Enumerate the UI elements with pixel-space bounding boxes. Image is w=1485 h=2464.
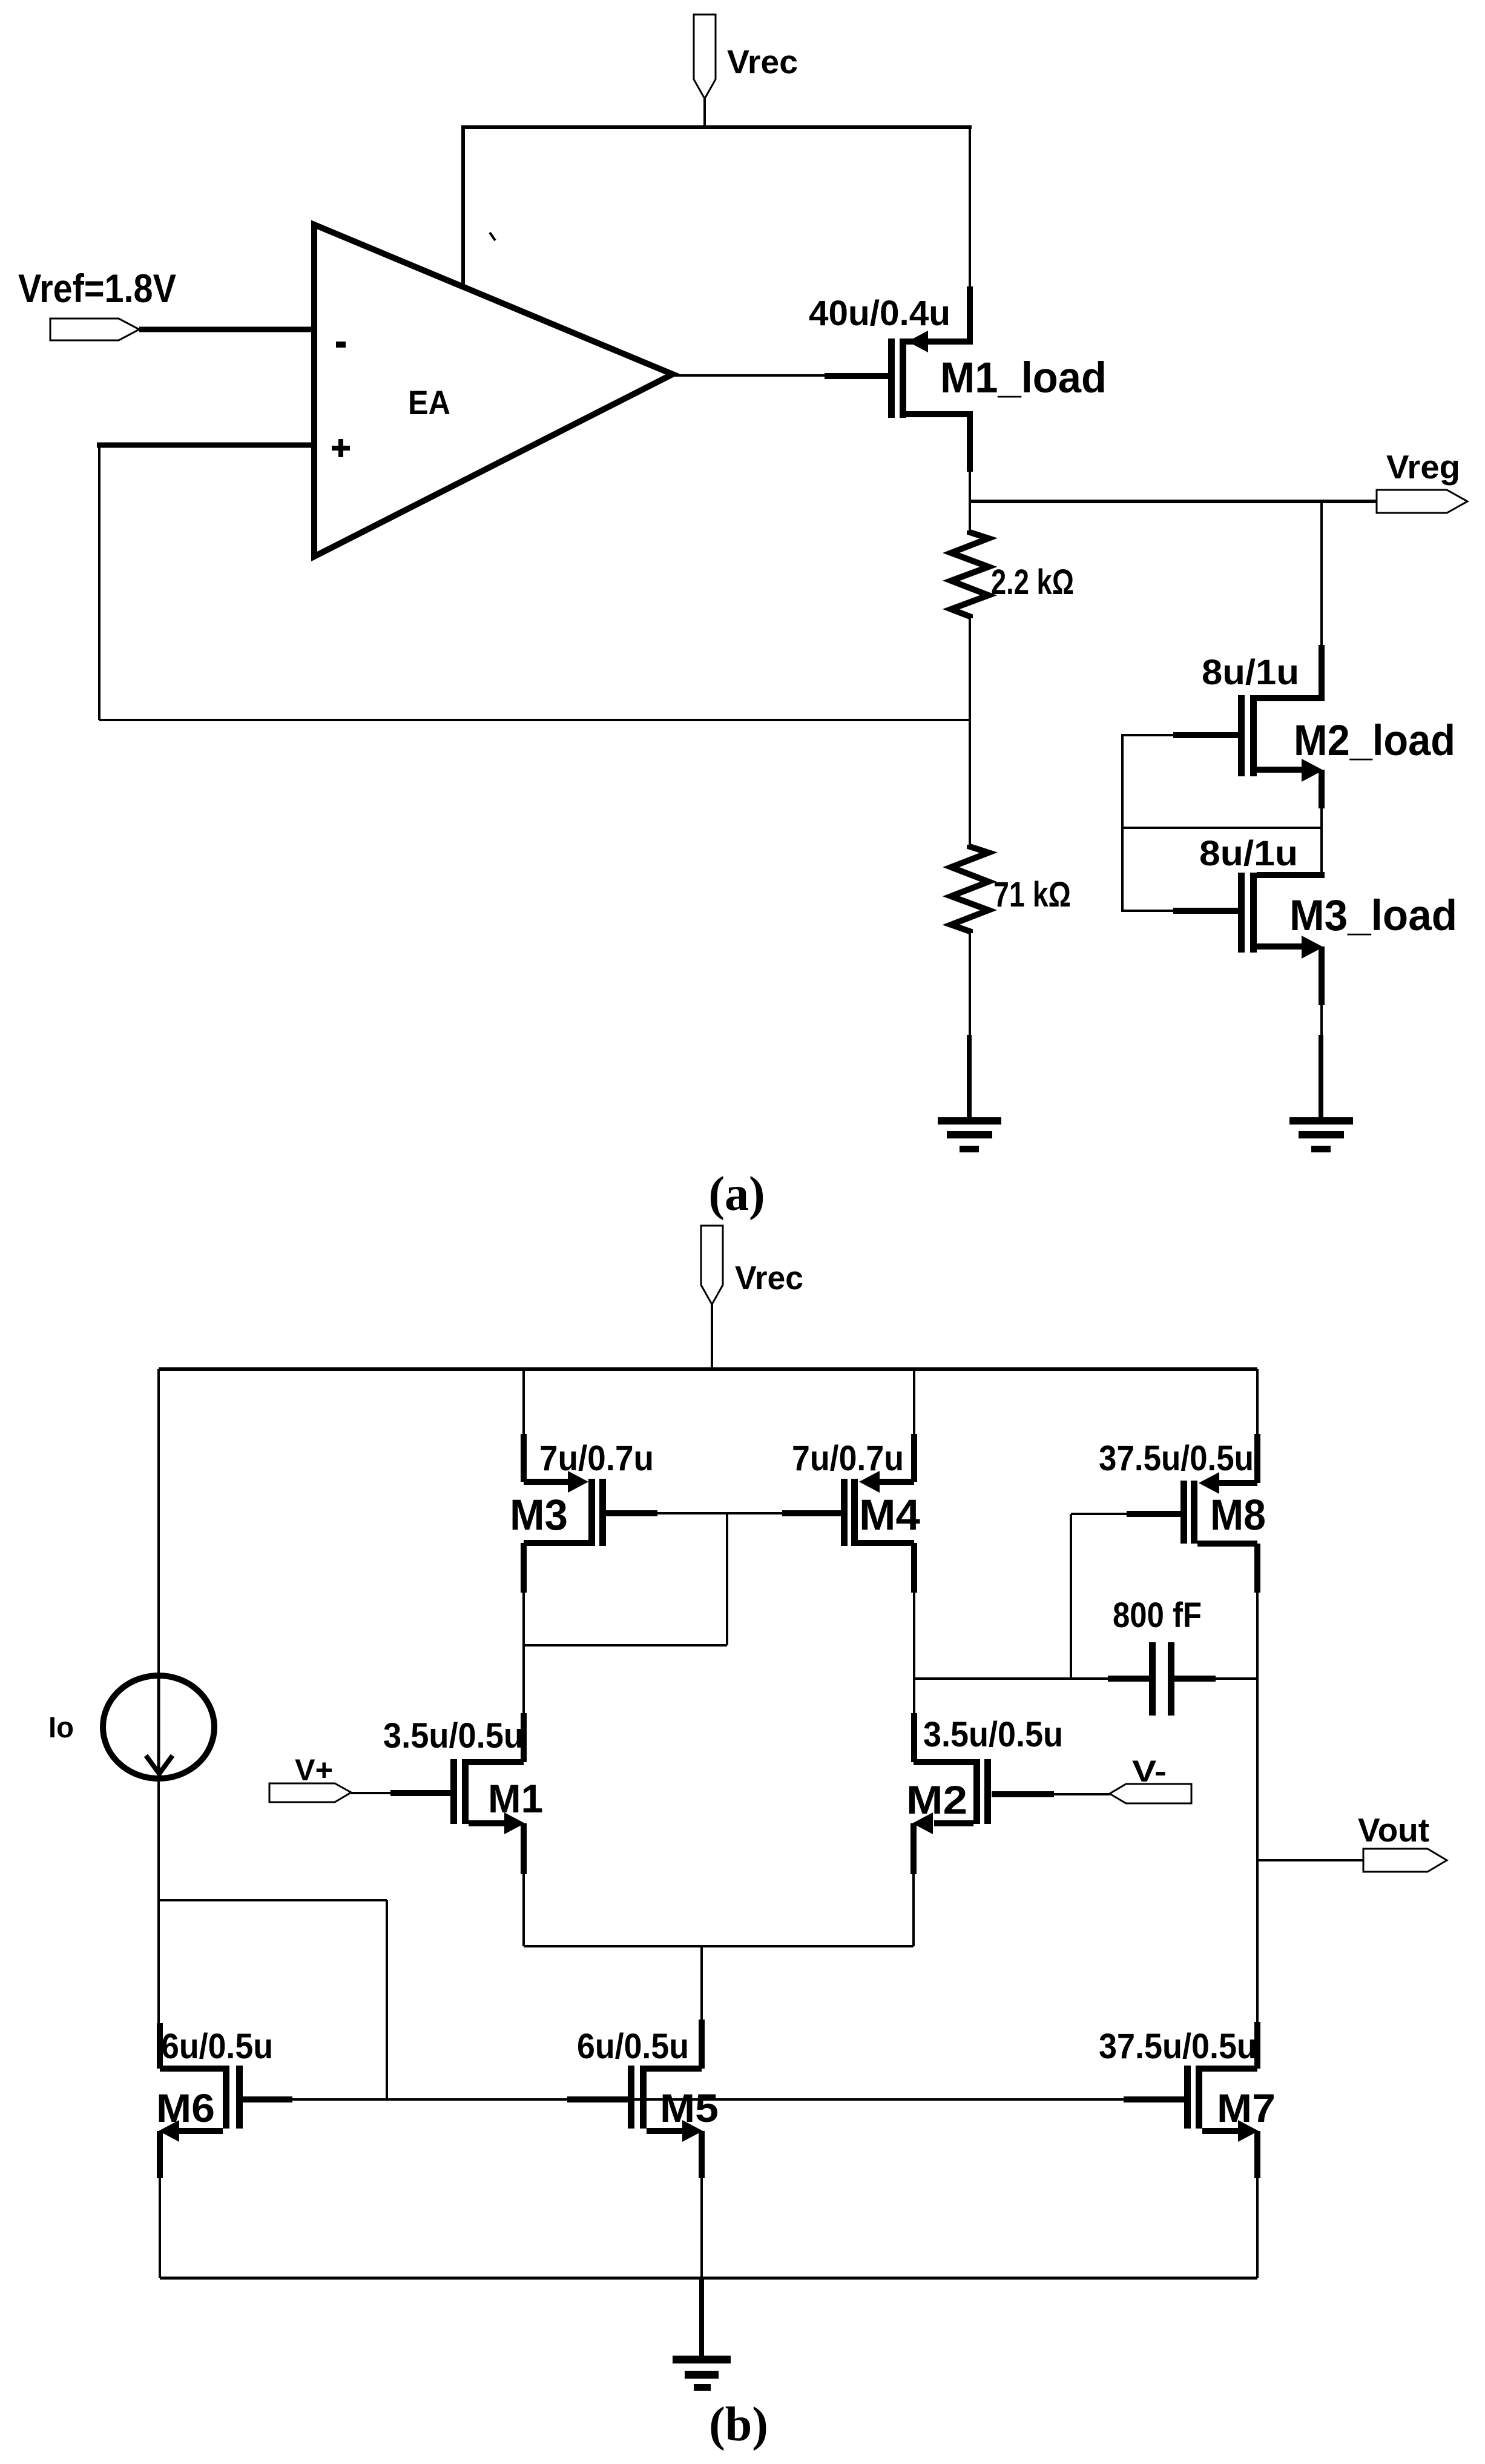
svg-text:3.5u/0.5u: 3.5u/0.5u [383,1716,524,1756]
wire M8 drain down to M7 (Vout rail) [1256,1593,1259,2069]
svg-text:M1_load: M1_load [940,354,1107,402]
wire divider middle (junction with feedback) [969,618,971,847]
wire EA output to M1_load gate [673,375,888,376]
svg-text:7u/0.7u: 7u/0.7u [792,1439,904,1478]
transistor M4 (PMOS 7u/0.7u) [841,1369,914,1593]
terminal Vrec (fig a) [694,15,716,127]
transistor M5 (NMOS 6u/0.5u) [628,2066,703,2178]
transistor M8 (PMOS 37.5u/0.5u) [1180,1369,1257,1593]
wire M3_load drain to ground [1321,946,1322,1119]
svg-text:Vref=1.8V: Vref=1.8V [18,266,176,311]
wire Io node to M5/M6 gate bus [159,1900,387,2099]
ground (fig b) [673,2356,731,2391]
wire M7 source to bottom rail [1256,2178,1259,2278]
wire M1_load drain to Vreg node [969,472,971,533]
wire gate bus M6-M5-M7 [243,2096,1184,2102]
svg-text:M2: M2 [906,1777,967,1822]
transistor M3 (PMOS 7u/0.7u) [524,1369,606,1593]
terminal Vref [50,319,139,340]
wire Vout horizontal [1257,1859,1365,1861]
svg-text:6u/0.5u: 6u/0.5u [161,2027,273,2066]
svg-text:800 fF: 800 fF [1113,1596,1202,1635]
transistor M1_load (PMOS 40u/0.4u) [888,286,973,472]
wire compensation node horizontal [914,1677,1257,1680]
svg-text:EA: EA [408,383,450,421]
transistor M3_load (8u/1u, diode connected) [1122,872,1325,959]
wire Vref to EA minus input [139,327,314,332]
svg-text:7u/0.7u: 7u/0.7u [539,1439,654,1478]
wire Vreg node down to M2_load [1320,501,1323,698]
wire gate bus M2/M3 load [1121,734,1124,912]
wire M3 diode tap [524,1513,727,1645]
wire rail right drop to M1_load source [969,127,971,288]
wire top rail (fig a) [462,125,972,129]
wire feedback to EA plus input [97,443,970,720]
svg-text:M7: M7 [1217,2086,1276,2130]
svg-text:40u/0.4u: 40u/0.4u [809,294,950,333]
svg-text:V-: V- [1132,1754,1167,1788]
svg-text:37.5u/0.5u: 37.5u/0.5u [1099,2027,1257,2066]
svg-text:M5: M5 [660,2086,719,2130]
svg-text:2.2 kΩ: 2.2 kΩ [991,563,1074,602]
wire M3/M4 gate bus [606,1510,841,1516]
wire rail to EA top [461,125,465,286]
svg-text:Vout: Vout [1358,1811,1429,1849]
wire V- to M2 gate [992,1793,1110,1795]
wire Io to M6 drain [159,1779,160,2069]
svg-text:37.5u/0.5u: 37.5u/0.5u [1099,1439,1254,1478]
capacitor 800 fF [1149,1642,1174,1716]
wire V+ to M1 gate [351,1792,450,1794]
transistor M6 (NMOS 6u/0.5u) [159,2066,243,2178]
terminal Vrec (fig b) [701,1226,723,1369]
stray tick mark [490,233,495,240]
wire Vreg horizontal [970,500,1378,503]
svg-text:(b): (b) [709,2398,768,2451]
wire left rail branch to Io [157,1369,160,1677]
current source Io [103,1676,214,1779]
svg-text:(a): (a) [708,1168,765,1221]
svg-text:M2_load: M2_load [1294,717,1455,765]
svg-text:M1: M1 [488,1776,543,1821]
terminal Vout [1363,1849,1447,1872]
wire M6 source to bottom rail [159,2178,161,2278]
svg-text:V+: V+ [295,1753,333,1787]
transistor M2_load (8u/1u, diode connected) [1122,695,1325,808]
terminal Vreg [1377,490,1467,513]
terminal V+ [269,1783,351,1802]
wire ground stem (fig b) [699,2278,704,2357]
wire M5 source to bottom rail [700,2178,703,2278]
svg-text:6u/0.5u: 6u/0.5u [577,2027,689,2066]
svg-text:71 kΩ: 71 kΩ [993,875,1071,914]
svg-text:Vrec: Vrec [727,43,798,81]
terminal V- [1110,1784,1191,1803]
resistor 2.2 kOhm [951,530,989,618]
svg-text:Vreg: Vreg [1386,448,1460,486]
svg-text:M3: M3 [510,1491,568,1539]
svg-text:Io: Io [48,1712,74,1744]
wire 71k to ground [969,933,970,1119]
ground (below divider) [938,1117,1001,1152]
svg-text:M4: M4 [859,1491,921,1539]
wire top rail (fig b) [159,1367,1257,1371]
svg-text:8u/1u: 8u/1u [1199,834,1298,873]
transistor M7 (NMOS 37.5u/0.5u) [1184,2066,1259,2178]
wire diode tap (node between M2_load and M3_load) [1122,827,1322,829]
svg-text:8u/1u: 8u/1u [1202,653,1299,692]
svg-text:M8: M8 [1210,1491,1266,1539]
wire differential pair tail [524,1874,914,2069]
wire M4 drain to M2 drain (through comp node) [913,1593,915,1762]
svg-text:M6: M6 [156,2086,215,2130]
resistor 71 kOhm [951,845,989,933]
svg-text:3.5u/0.5u: 3.5u/0.5u [923,1715,1063,1754]
transistor M1 (NMOS 3.5u/0.5u) [450,1759,525,1874]
transistor M2 (NMOS 3.5u/0.5u) [912,1759,991,1874]
wire M2 drain to M3 source [1320,808,1323,877]
wire M8 gate [1071,1514,1180,1679]
svg-text:Vrec: Vrec [735,1259,803,1296]
wire bottom rail (fig b) [160,2277,1257,2280]
wire M3 drain to M1 drain [522,1593,525,1762]
svg-text:M3_load: M3_load [1289,892,1457,940]
op-amp EA [314,225,673,557]
ground (below M3_load) [1289,1117,1353,1152]
